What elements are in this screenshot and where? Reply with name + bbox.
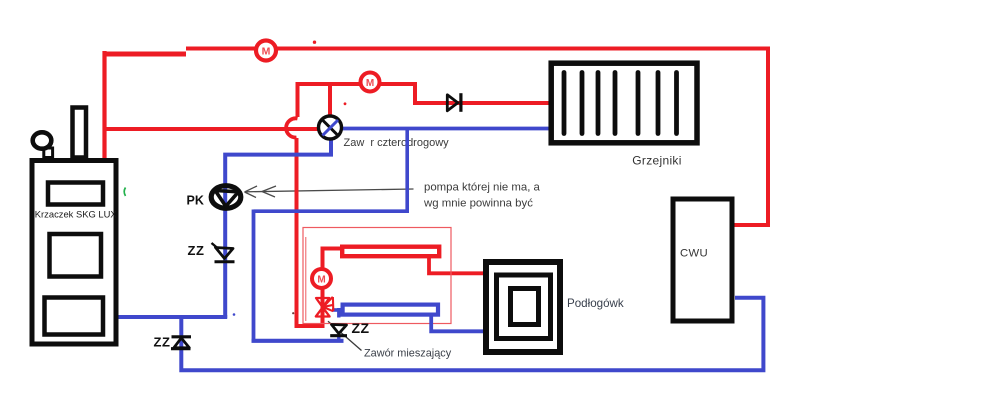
annotation pointer to mixing valve xyxy=(328,321,362,350)
valve ZZ3 (mixing, black) xyxy=(330,325,347,336)
wire: radiator line down at x407 xyxy=(405,130,409,211)
blue speck xyxy=(233,313,236,316)
valve ZZ2 (bottom return) xyxy=(171,337,191,349)
wire: manifold left stub xyxy=(332,308,343,312)
svg-text:ZZ: ZZ xyxy=(352,320,370,336)
green speck xyxy=(124,188,125,196)
wire: mixing riser to manifold xyxy=(323,249,342,328)
wire: top main line to CWU xyxy=(186,49,768,226)
svg-text:PK: PK xyxy=(187,194,204,208)
CWU tank xyxy=(673,199,732,321)
pump M2 xyxy=(361,73,380,92)
svg-text:ZZ: ZZ xyxy=(188,243,205,258)
wire: mid horizontal to 4-way valve xyxy=(103,127,319,131)
blue manifold (floor return header) xyxy=(343,305,438,315)
mixing valve (red 3-way) xyxy=(316,297,334,317)
pump M3 (floor circuit) xyxy=(312,269,331,288)
svg-text:M: M xyxy=(317,275,325,286)
boiler chimney xyxy=(73,108,87,158)
red speck mid xyxy=(344,102,347,105)
pump PK xyxy=(211,186,241,209)
boiler door 1 xyxy=(48,183,103,205)
thin selection rectangle xyxy=(303,228,451,324)
wire: branch over valve with M2 and diode xyxy=(298,84,549,117)
4-way valve U1 xyxy=(319,116,342,139)
radiator Grzejniki xyxy=(551,63,697,143)
check valve (diode) xyxy=(447,93,461,112)
boiler door 2 xyxy=(50,234,102,277)
wire: valve bottom to PK branch xyxy=(225,138,331,318)
svg-text:M: M xyxy=(366,78,374,89)
red speck top xyxy=(313,41,316,44)
valve ZZ1 (on PK branch) xyxy=(212,243,235,262)
wire: manifold to floor loop xyxy=(429,256,484,273)
BLUE PIPES xyxy=(117,129,763,371)
wire: boiler supply vertical xyxy=(102,51,106,158)
boiler body xyxy=(32,161,116,345)
wire: mixing valve stub xyxy=(337,308,340,318)
svg-text:pompa której nie ma, a: pompa której nie ma, a xyxy=(424,182,541,194)
pump M1 xyxy=(256,41,276,61)
wire: blue manifold to floor loop xyxy=(431,314,483,331)
wire: boiler return horizontal xyxy=(117,315,227,319)
wire: horizontal y211 xyxy=(254,209,410,213)
svg-text:CWU: CWU xyxy=(680,248,708,260)
red manifold (floor supply header) xyxy=(342,247,439,257)
svg-text:Zawór mieszający: Zawór mieszający xyxy=(364,348,452,360)
dark speck xyxy=(292,312,294,314)
RED PIPES xyxy=(103,49,768,328)
wire: hop over horizontal xyxy=(286,118,297,137)
wire: bottom return loop to CWU xyxy=(181,298,763,371)
floor heating coil Podlogowka xyxy=(486,262,560,352)
wire: stub valve top xyxy=(328,84,332,117)
wire: down to floor mixing xyxy=(297,138,325,326)
boiler gauge circle xyxy=(44,148,53,158)
svg-text:ZZ: ZZ xyxy=(154,335,171,350)
boiler door 3 xyxy=(45,298,104,335)
svg-text:Zaw r czterodrogowy: Zaw r czterodrogowy xyxy=(344,137,450,149)
svg-text:wg mnie powinna być: wg mnie powinna być xyxy=(423,198,533,210)
wire: vertical x253 xyxy=(252,210,256,342)
annotation arrow to PK pump xyxy=(245,186,414,198)
wire: valve to radiator return xyxy=(342,127,549,131)
svg-text:Krzaczek SKG LUX: Krzaczek SKG LUX xyxy=(35,209,118,220)
wire: bottom bar to mixing valve xyxy=(252,339,344,343)
svg-text:Podłogówk: Podłogówk xyxy=(567,297,624,310)
svg-text:Grzejniki: Grzejniki xyxy=(632,154,681,168)
svg-text:M: M xyxy=(262,46,271,58)
wire: top-left stub xyxy=(103,52,186,57)
